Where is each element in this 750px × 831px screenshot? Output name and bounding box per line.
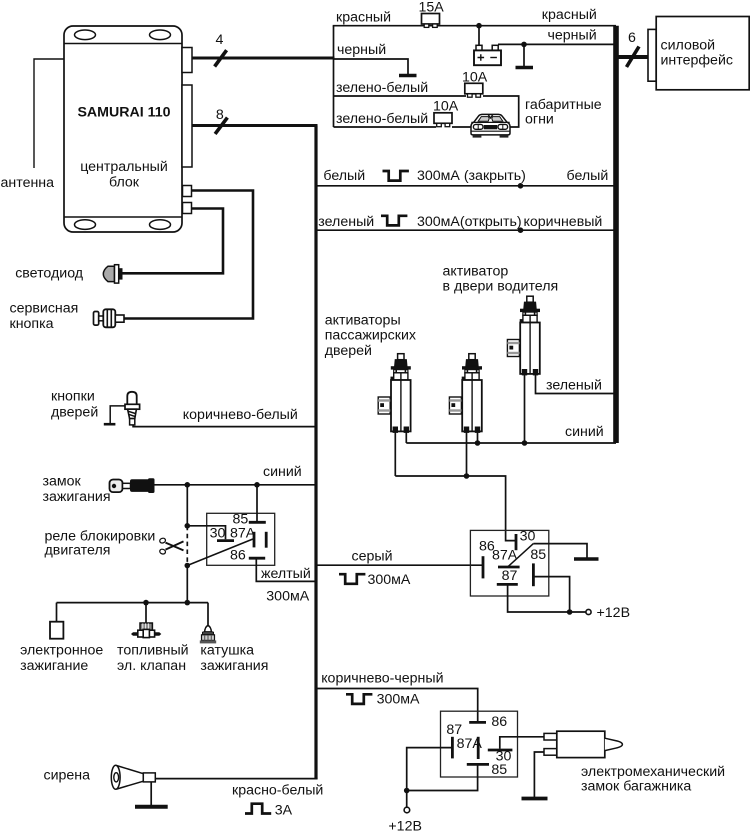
wire зелено-белый 1 <box>334 95 467 97</box>
node ground junction <box>521 42 527 48</box>
svg-text:антенна: антенна <box>1 175 55 191</box>
node fuel valve <box>143 600 149 606</box>
wire to service button <box>124 191 253 319</box>
siren horn <box>111 765 155 789</box>
svg-text:сирена: сирена <box>44 768 91 784</box>
wire to battery plus <box>478 26 480 46</box>
wire siren stand <box>150 782 152 805</box>
harness-4 slash <box>215 50 227 66</box>
relay K3 pin 86 contact <box>469 721 486 724</box>
node act3 on blue wire <box>522 440 528 446</box>
svg-text:блок: блок <box>109 175 140 191</box>
svg-text:красно-белый: красно-белый <box>232 783 323 799</box>
+12V terminal circle <box>586 609 591 614</box>
svg-text:85: 85 <box>530 547 546 563</box>
ground (harness black wire) <box>399 74 417 78</box>
node engine block wire <box>185 600 191 606</box>
wire to fuel valve <box>145 603 147 623</box>
wire down from ignition node <box>186 485 188 526</box>
wire синий (ignition) <box>154 484 316 486</box>
svg-text:замок багажника: замок багажника <box>581 779 691 795</box>
svg-text:+12В: +12В <box>388 819 422 831</box>
pulse 3A positive <box>245 804 271 814</box>
svg-text:центральный: центральный <box>80 159 168 175</box>
wire parking lights bracket <box>452 96 519 127</box>
wire actuator1 right terminal to blue wire <box>405 431 407 443</box>
relay K2 pin 87 contact <box>497 583 518 586</box>
wire relay K1 pin85 to ignition <box>256 485 258 521</box>
ground (trunk lock) <box>522 797 548 801</box>
svg-text:интерфейс: интерфейс <box>661 53 733 69</box>
wire actuator3 left terminal to blue wire <box>524 374 526 444</box>
svg-text:300мА: 300мА <box>377 692 420 708</box>
node battery junction <box>476 23 482 29</box>
relay K3 pin 30 contact <box>488 749 513 752</box>
wire trunk lock to ground <box>534 752 544 797</box>
node act2 on blue wire <box>475 440 481 446</box>
relay K3 pin 87 contact <box>451 737 454 759</box>
wire actuators common to relay pin30 <box>395 476 516 541</box>
harness-6 slash <box>627 47 640 68</box>
svg-text:+12В: +12В <box>597 605 631 621</box>
electronic ignition box <box>50 622 63 639</box>
wire черный (harness, to chassis) <box>334 59 409 74</box>
svg-text:активатор: активатор <box>443 264 509 280</box>
svg-text:зелено-белый: зелено-белый <box>336 80 428 96</box>
actuator passenger 1 <box>378 354 411 433</box>
svg-text:светодиод: светодиод <box>15 266 84 282</box>
wire синий (actuators) <box>406 442 616 444</box>
svg-text:10А: 10А <box>462 70 488 86</box>
svg-text:огни: огни <box>525 112 554 128</box>
door switch bracket to ground <box>110 406 125 423</box>
wire 6-wire harness to power interface <box>616 55 649 59</box>
svg-text:87: 87 <box>502 568 518 584</box>
svg-text:синий: синий <box>263 464 302 480</box>
svg-text:кнопки: кнопки <box>51 389 95 405</box>
actuator driver door <box>507 296 540 375</box>
pulse 300mA gray <box>339 574 365 584</box>
wire actuator2 left terminal down <box>466 431 468 476</box>
wire relay K3 pin30 to trunk lock <box>500 737 544 749</box>
wire черный (battery negative) <box>498 43 616 45</box>
wire relay K3 pin87 to +12V <box>407 748 451 791</box>
svg-text:SAMURAI 110: SAMURAI 110 <box>77 105 170 121</box>
door pin switch <box>125 392 140 425</box>
trunk lock solenoid <box>544 731 622 757</box>
wire relay K3 pin85 to +12V <box>407 765 478 791</box>
wire relay K2 pin87 to +12V <box>508 585 586 612</box>
ignition coil icon <box>200 626 216 644</box>
wire 8-wire harness <box>192 124 318 127</box>
wire коричнево-белый <box>133 425 316 427</box>
relay K1 switch arm <box>187 539 253 566</box>
scissors <box>159 537 183 554</box>
relay K3 pin 87A contact <box>477 737 480 759</box>
node ignition wire to relay coil <box>254 482 260 488</box>
wire actuator1 left terminal down <box>394 431 396 476</box>
harness-8 slash <box>215 118 227 134</box>
svg-text:коричнево-черный: коричнево-черный <box>321 671 443 687</box>
svg-text:синий: синий <box>565 424 604 440</box>
svg-text:черный: черный <box>548 28 597 44</box>
ground (battery negative) <box>523 44 525 66</box>
wire сирена to bus <box>155 778 317 780</box>
relay K1 engine block box <box>207 513 275 565</box>
svg-text:зажигания: зажигания <box>43 489 111 505</box>
wire to electronic ignition <box>56 603 58 622</box>
svg-text:300мА (закрыть): 300мА (закрыть) <box>417 168 526 184</box>
svg-text:8: 8 <box>216 107 224 123</box>
svg-text:4: 4 <box>216 32 224 48</box>
LED <box>103 265 122 283</box>
svg-text:коричневый: коричневый <box>524 214 603 230</box>
svg-text:двигателя: двигателя <box>45 543 111 559</box>
relay K3 pin 85 contact <box>467 763 489 766</box>
relay K2 pin 86 contact <box>482 556 485 578</box>
svg-text:15А: 15А <box>419 0 445 16</box>
ignition lock (key) <box>110 478 155 493</box>
svg-text:6: 6 <box>628 30 636 46</box>
svg-text:электронное: электронное <box>20 642 103 658</box>
ground (siren) <box>135 805 168 809</box>
central unit SAMURAI 110 <box>64 26 182 232</box>
svg-text:300мА: 300мА <box>368 572 411 588</box>
right vertical power bus <box>613 26 619 443</box>
node +12V bottom junction <box>404 788 410 794</box>
wire actuator2 right terminal to blue wire <box>477 431 479 443</box>
svg-text:белый: белый <box>567 168 609 184</box>
relay K2 pin 30 contact <box>515 534 518 550</box>
svg-text:30: 30 <box>520 528 536 544</box>
svg-text:зажигание: зажигание <box>20 658 88 674</box>
wire зелено-белый 2 <box>334 126 437 128</box>
svg-text:активаторы: активаторы <box>325 312 401 328</box>
main vertical bus wire <box>314 126 317 779</box>
pulse 300mA brown-black <box>346 694 372 704</box>
node ignition wire to cut wire <box>185 482 191 488</box>
svg-text:белый: белый <box>323 168 365 184</box>
wire зеленый from driver actuator <box>536 374 617 394</box>
svg-text:10А: 10А <box>433 99 459 115</box>
svg-text:силовой: силовой <box>661 38 716 54</box>
svg-text:в двери водителя: в двери водителя <box>443 279 559 295</box>
power interface box <box>648 17 749 90</box>
pulse 300mA open <box>381 216 407 226</box>
svg-text:300мА: 300мА <box>266 589 309 605</box>
wire engine loads horizontal <box>57 602 209 604</box>
connector pins on right edge of central unit <box>182 48 192 214</box>
battery GB1 <box>474 45 501 65</box>
wire зеленый (open) <box>316 229 616 231</box>
wire arm to ground <box>533 544 587 558</box>
wire 4-wire harness <box>192 57 335 60</box>
node on white wire <box>518 183 524 189</box>
svg-text:зелено-белый: зелено-белый <box>336 111 428 127</box>
wire красный (red) top <box>333 25 616 27</box>
node at relay pin 30 tap <box>185 523 191 529</box>
relay K1 pin 86 contact <box>249 557 265 560</box>
svg-text:зажигания: зажигания <box>200 658 268 674</box>
svg-text:300мА(открыть): 300мА(открыть) <box>417 214 522 230</box>
svg-text:красный: красный <box>542 7 597 23</box>
node +12V junction <box>567 609 573 615</box>
wire коричнево-черный <box>316 689 478 723</box>
relay K1 pin 30 contact <box>217 539 234 542</box>
node act2 on common wire <box>464 473 470 479</box>
wire from cut point to engine loads <box>186 566 188 603</box>
wire белый (close) <box>316 185 616 187</box>
car icon (parking lights) <box>471 114 510 137</box>
wire relay K2 pin85 to +12V <box>535 577 570 612</box>
svg-text:замок: замок <box>43 474 82 490</box>
cut wire (dashed) <box>186 526 188 566</box>
relay K2 central lock box <box>470 530 548 596</box>
wire to +12V terminal <box>406 791 408 808</box>
fuse 10A (second) <box>433 99 459 127</box>
svg-text:зеленый: зеленый <box>318 214 374 230</box>
wire желтый relay K1 pin86 to bus <box>256 559 316 581</box>
relay K1 pin 85 contact <box>249 521 266 524</box>
svg-text:дверей: дверей <box>325 343 372 359</box>
fuse 15A <box>419 0 445 27</box>
pulse 300mA close <box>383 171 409 181</box>
wire to ignition coil <box>207 603 209 626</box>
service button <box>94 309 125 327</box>
svg-text:коричнево-белый: коричнево-белый <box>183 407 298 423</box>
wire to LED <box>123 209 224 274</box>
fuse 10A (first) <box>462 70 488 98</box>
fuel valve icon <box>131 623 161 638</box>
relay K2 pin 85 contact <box>532 563 535 586</box>
wire relay K1 pin30 tap <box>187 526 225 539</box>
wire серый bus to relay K2 <box>316 564 483 566</box>
svg-text:зеленый: зеленый <box>546 378 602 394</box>
node on green wire <box>518 227 524 233</box>
harness bundle vertical wire <box>333 26 335 127</box>
relay K1 второй contact bar <box>265 532 268 548</box>
+12V terminal circle (bottom) <box>404 807 410 813</box>
svg-text:пассажирских: пассажирских <box>325 328 416 344</box>
svg-text:топливный: топливный <box>117 642 189 658</box>
svg-text:86: 86 <box>230 547 246 563</box>
actuator passenger 2 <box>449 354 482 433</box>
relay K3 trunk box <box>441 711 518 777</box>
svg-text:85: 85 <box>491 762 507 778</box>
relay K2 pin 87A contact <box>498 566 520 569</box>
svg-text:кнопка: кнопка <box>10 316 54 332</box>
svg-text:катушка: катушка <box>200 642 254 658</box>
svg-text:3А: 3А <box>275 803 293 819</box>
svg-text:желтый: желтый <box>261 566 311 582</box>
relay K1 87A contact bar <box>253 532 256 548</box>
svg-text:сервисная: сервисная <box>10 301 79 317</box>
svg-text:эл. клапан: эл. клапан <box>117 658 186 674</box>
ground (relay K2) <box>574 557 599 561</box>
svg-text:серый: серый <box>352 549 393 565</box>
node switch arm to cut wire <box>185 563 191 569</box>
svg-text:86: 86 <box>491 714 507 730</box>
antenna wire <box>34 59 64 168</box>
relay K2 switch arm <box>508 544 533 567</box>
svg-text:красный: красный <box>336 10 391 26</box>
svg-text:черный: черный <box>337 42 386 58</box>
svg-text:дверей: дверей <box>51 404 98 420</box>
